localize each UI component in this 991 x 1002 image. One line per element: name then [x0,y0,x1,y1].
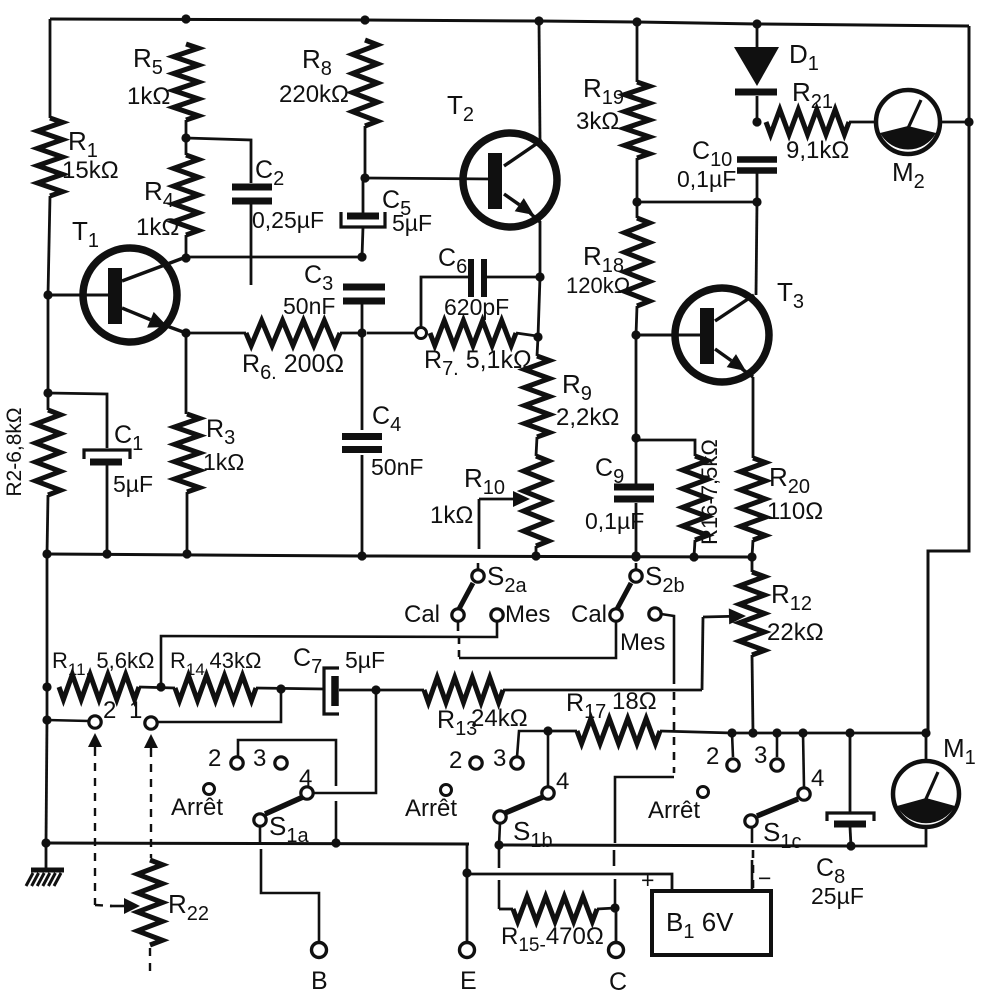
transistor T2 [463,133,557,227]
wire C7 to R13 [339,689,424,692]
svg-text:1kΩ: 1kΩ [127,83,170,110]
capacitor C7 [324,668,339,714]
junction top rail / R8 [360,15,369,24]
resistor R11 [59,675,139,700]
wire collector row [186,256,362,259]
wire R8 node to C5 [362,178,365,213]
junction C1 / mid rail [102,549,111,558]
capacitor C6 [468,259,474,297]
wire C6 left [421,277,469,328]
wire S2a Cal dashed link [457,621,460,631]
resistor R6 [246,321,340,346]
wire R5/R4 junction to C2 [186,138,251,183]
wire R12 top lead [751,557,754,572]
svg-text:9,1kΩ: 9,1kΩ [786,137,849,164]
wire C3 to emitter row [361,304,364,333]
wire R10 bottom to mid rail [535,546,538,556]
svg-text:110Ω: 110Ω [767,498,823,525]
wire R17 to S1c row [660,731,732,733]
svg-text:50nF: 50nF [371,454,423,480]
wire M2 to right rail [939,121,969,124]
wire S1a pivot to ground rail [259,826,262,843]
junction R15 / terminal C [610,903,619,912]
junction loop / ground rail [331,838,340,847]
wire R11 to R14 [139,687,175,688]
contact 3 (S1a) [275,757,287,769]
potentiometer R12 [740,572,765,655]
junction T1 emitter node [181,328,190,337]
capacitor C1 [84,450,130,459]
svg-text:2: 2 [208,745,221,772]
wire R5 to R4 junction [185,120,188,155]
dashed lead below R22 [149,948,151,972]
junction ground rail left [41,838,50,847]
junction C8 / ground rail [846,841,855,850]
junction R3 / mid rail [182,549,191,558]
wire Mes link to C terminal [615,777,674,843]
wire C10 bottom lead [756,172,759,202]
wire C1 to mid rail [106,465,109,554]
svg-text:Arrêt: Arrêt [648,797,700,824]
junction R2 top / C1 branch [43,388,52,397]
svg-text:50nF: 50nF [283,293,335,319]
wire M1 top lead [925,733,928,762]
resistor R17 [577,719,660,744]
contact Arret (S1c) [698,787,709,798]
svg-text:5µF: 5µF [392,210,432,236]
svg-text:Mes: Mes [620,629,665,656]
potentiometer R22 [138,860,163,945]
switch S2b tick [635,563,638,570]
svg-text:4: 4 [556,768,569,795]
wire T3 collector [715,295,754,321]
svg-text:Mes: Mes [505,601,550,628]
resistor R18 [625,218,650,306]
wire C10 row [637,201,757,204]
switch S2a tick [477,563,480,570]
wire T3 base [636,334,702,337]
dashed link contact2 to R22 wiper [94,747,96,748]
capacitor C9 [614,484,654,491]
wire Mes link below ground rail [613,850,616,866]
svg-text:Arrêt: Arrêt [171,794,223,821]
wire contact4 lead (S1c) [803,733,804,787]
wire selector left [47,720,89,721]
svg-text:0,25µF: 0,25µF [252,207,324,233]
wire R12 wiper to R13 row [702,617,703,690]
resistor R16 [683,456,708,540]
wire R13 to R12-wiper branch [503,689,702,692]
contact 2 (left selector) [89,716,101,728]
junction R14 / selector contact 1 [276,684,285,693]
wire R16 to mid rail [694,540,695,557]
junction C4 / mid rail [357,551,366,560]
resistor R8 [353,40,378,126]
wiper of R22 [110,905,124,908]
wire B1 minus lead [751,860,754,891]
resistor R3 [175,414,200,492]
capacitor C4 [342,433,382,440]
wire T2 base [365,178,492,179]
wire T3 base column down [635,335,638,438]
resistor R4 [174,155,199,235]
wire contact3 to R13/R17 node [517,731,548,757]
junction left column / R11 [42,682,51,691]
junction top rail / R5 [181,14,190,23]
switch S2a [472,570,484,582]
wire R17 left lead [548,730,577,733]
contact 2 (S1a) [231,757,243,769]
wire node to contact4 (S1b) [547,731,550,787]
transistor T3 [675,288,769,382]
junction R8 / C5 / T2 base [360,173,369,182]
resistor R7 [430,321,516,346]
svg-text:Cal: Cal [571,601,607,628]
potentiometer R10 [524,456,549,546]
node R7 left ring [416,328,427,339]
svg-text:C: C [609,968,627,996]
junction R20 / R12 / mid rail [747,552,756,561]
wire C9 to mid rail [635,503,638,556]
wire right rail M2 down to step [928,122,969,733]
wire contact3 tick (S1c) [776,733,779,757]
wire R4 to collector node [185,235,188,258]
junction C7 / S1a branch [371,685,380,694]
switch S2b [630,570,642,582]
junction T2 emitter / C6 [535,272,544,281]
junction R13 / R17 / contact4 node [543,726,552,735]
svg-text:22kΩ: 22kΩ [767,619,824,646]
junction S1b / ground rail [494,840,503,849]
svg-text:2,2kΩ: 2,2kΩ [556,404,619,431]
transistor T1 [83,248,177,342]
wire S2b Mes dashed drop [673,692,676,773]
junction top rail / D1 [752,19,761,28]
ground [45,843,48,869]
wire left column R11 node to selector wire [46,687,49,720]
contact 2 (S1b) [470,757,482,769]
wire Cal link row [459,621,616,658]
wire T1 base [48,294,110,297]
wire R10 wiper drop [478,499,481,549]
junction D1 / R21 / C10 [752,117,761,126]
wire C3 node to C4 [361,333,364,430]
switch S1a lever [265,797,303,814]
wire C6 right [487,276,539,279]
junction R11/R14/selector [156,682,165,691]
resistor R2 [36,410,61,495]
svg-text:2: 2 [103,697,116,724]
contact 4 (S1a) [301,787,313,799]
wire S1b pivot to R15 [498,848,501,868]
wire ground rail left [46,843,469,844]
wire E row to B1 plus [467,874,672,890]
junction C8 / S1c row [845,728,854,737]
wire R19 to C10 row [636,158,639,218]
svg-text:1kΩ: 1kΩ [203,449,245,475]
wire contact2 loop [238,740,336,786]
resistor R13 [424,678,503,703]
wire T2 emitter with arrow [504,194,519,205]
wire left column selector to ground rail [46,720,47,843]
terminal E [460,943,475,958]
diode D1 [734,47,779,86]
svg-text:2: 2 [706,743,719,770]
wire left column mid rail to R11 node [46,554,49,687]
svg-text:3kΩ: 3kΩ [576,108,619,135]
switch S1b lever [505,797,543,813]
wire terminal E lead [466,874,469,943]
junction E row [462,868,471,877]
contact Arret (S1a) [204,784,215,795]
contact 3 (S1b) [511,757,523,769]
wiper of R10 [479,498,513,501]
junction top rail / R19 [632,17,641,26]
wire S1b pivot to ground [499,823,500,845]
resistor R20 [741,458,766,540]
resistor R5 [174,44,199,120]
contact 4 (S1c) [798,788,810,800]
junction C9 / mid rail [631,551,640,560]
junction R5/R4/C2 [181,133,190,142]
wire S1c pivot to ground [751,827,754,843]
wire D1 top lead [756,24,759,47]
wire S1a pivot to terminal B [261,849,319,943]
junction C5/C3/collector row [357,252,366,261]
resistor R14 [175,676,256,701]
junction T1 collector node [181,253,190,262]
svg-text:18Ω: 18Ω [612,688,657,715]
wire right rail from top corner to M2 [968,26,971,122]
contact 1 (left selector) [145,717,157,729]
wire R20 to mid rail [752,540,753,557]
svg-text:3: 3 [253,745,266,772]
junction top rail / T2 collector line [534,16,543,25]
wire S2a Mes to R11/R14 junction [161,621,497,687]
svg-text:3: 3 [754,742,767,769]
switch S1c lever [757,799,798,816]
svg-text:B: B [311,967,328,995]
svg-text:Arrêt: Arrêt [405,795,457,822]
junction C10 bottom node [752,197,761,206]
svg-text:620pF: 620pF [444,294,509,320]
svg-text:E: E [460,967,477,995]
wire S2b Mes drop [661,614,674,684]
svg-text:220kΩ: 220kΩ [279,81,349,108]
resistor R19 [625,82,650,158]
svg-text:5µF: 5µF [113,471,153,497]
wire left column [49,19,52,118]
svg-text:−: − [758,865,771,891]
capacitor C3 [343,284,385,291]
junction M2 / right rail [964,117,973,126]
wire D1 to R21 node [756,96,759,126]
wire collector node to emitter-row [185,333,188,414]
junction R19/R18/C10 row [632,197,641,206]
wire R9 to R10 [536,437,537,456]
wire T3 emitter with arrow [715,349,731,361]
wire ground rail corner to E row [466,844,469,873]
capacitor C5 [347,213,379,220]
svg-text:Cal: Cal [404,601,440,628]
terminal B [312,943,327,958]
junction left column / mid rail [42,549,51,558]
svg-text:5µF: 5µF [345,647,385,673]
wire T3 emitter to R20 [752,377,755,458]
wire C8 to ground rail [850,827,851,846]
junction R12 bottom / S1c row [748,728,757,737]
wire R12 bottom [752,655,753,733]
battery B1 [652,891,771,955]
wire R15 right to C node [597,908,615,909]
wire T2 collector [504,140,542,166]
wire top supply rail [50,19,969,26]
svg-text:R16-7,5kΩ: R16-7,5kΩ [697,439,722,545]
pivot S1b [494,811,506,823]
wire S1c row [732,732,926,735]
meter M2 [876,90,940,154]
junction contact2 (S1c) [727,728,736,737]
svg-text:4: 4 [299,765,312,792]
svg-text:25µF: 25µF [811,883,864,909]
junction T1 base node [43,290,52,299]
wire R18 to T3 base [636,306,637,335]
wire left column R1 to T1 base [48,196,50,295]
wire ground rail right [499,845,851,846]
svg-text:1kΩ: 1kΩ [136,214,179,241]
wire T1 collector [122,257,186,281]
wire emitter node to R6 [186,332,246,335]
capacitor C2 [232,184,272,191]
junction contact4 (S1c) [798,728,807,737]
svg-text:2: 2 [449,747,462,774]
resistor R1 [38,118,63,196]
resistor R9 [525,356,550,437]
junction contact3 (S1c) [772,728,781,737]
svg-text:+: + [641,867,654,893]
wire R6 to C3 node [340,332,362,335]
contact Arret (S1b) [441,785,452,796]
dashed link contact1 to R22 [150,748,152,749]
pivot S1c [745,815,757,827]
wire mid rail [47,554,752,557]
wire R7 right lead [516,333,537,336]
junction left column / selector wire [42,715,51,724]
wire T1 emitter with arrow [122,308,150,320]
wire terminal C lead [615,908,618,943]
svg-text:1kΩ: 1kΩ [430,502,473,529]
wiper of R12 [703,615,729,618]
junction R10 / mid rail [531,551,540,560]
svg-text:R2-6,8kΩ: R2-6,8kΩ [3,407,26,496]
resistor R21 [766,110,849,135]
contact 3 (S1c) [771,759,783,771]
wire left column R2 to lower rail [47,495,48,554]
capacitor C10 [737,156,777,163]
meter M1 [893,761,959,827]
terminal C [609,943,624,958]
contact 2 (S1c) [727,759,739,771]
pivot S1a [254,814,266,826]
wire C9 top lead [635,438,638,484]
svg-text:15kΩ: 15kΩ [62,157,119,184]
wire R8 to T2 base node [364,126,367,178]
capacitor C8 [827,813,874,821]
junction T3 base node [631,330,640,339]
junction R7 / R9 column [533,332,542,341]
svg-text:0,1µF: 0,1µF [677,166,736,192]
junction M1 / right rail [921,728,930,737]
junction R16 / mid rail [689,552,698,561]
wire contact2 loop to ground [335,801,338,843]
wire C5 to C3 node [362,227,363,257]
wire R14 to C7 [256,688,324,689]
wire R19 top lead [636,22,639,82]
wire C9 node to R16 [636,440,695,456]
wire C8 top lead [849,733,852,812]
svg-text:120kΩ: 120kΩ [566,273,630,298]
wire contact4 to C7 node [313,690,376,793]
resistor R15 [513,897,597,922]
junction S2b / mid rail [631,552,640,561]
wire C4 to mid rail [361,455,364,556]
wire R7 left lead [367,332,416,335]
wire R3 to mid rail [186,492,189,554]
svg-text:3: 3 [493,745,506,772]
svg-text:1: 1 [129,697,142,724]
junction C3 / R6 / R7 / C4 [357,328,366,337]
wire C2 to collector row [250,204,253,285]
wire M1 bottom loop [851,826,926,846]
wire R21 to M2 [849,121,877,124]
wire T1-bias node to C1 [48,393,107,448]
wire T2 emitter column [538,277,540,337]
dashed lead S1c to B1 minus [752,850,755,889]
contact 4 (S1b) [542,787,554,799]
wire R9 top lead [537,337,538,356]
svg-text:4: 4 [811,765,824,792]
wire contact2 tick (S1c) [732,733,733,757]
svg-text:24kΩ: 24kΩ [471,705,528,732]
wire left column T1 base to R2 [47,295,50,410]
junction C9 / R16 node [631,433,640,442]
wire contact1 to R14 junction [157,689,281,722]
